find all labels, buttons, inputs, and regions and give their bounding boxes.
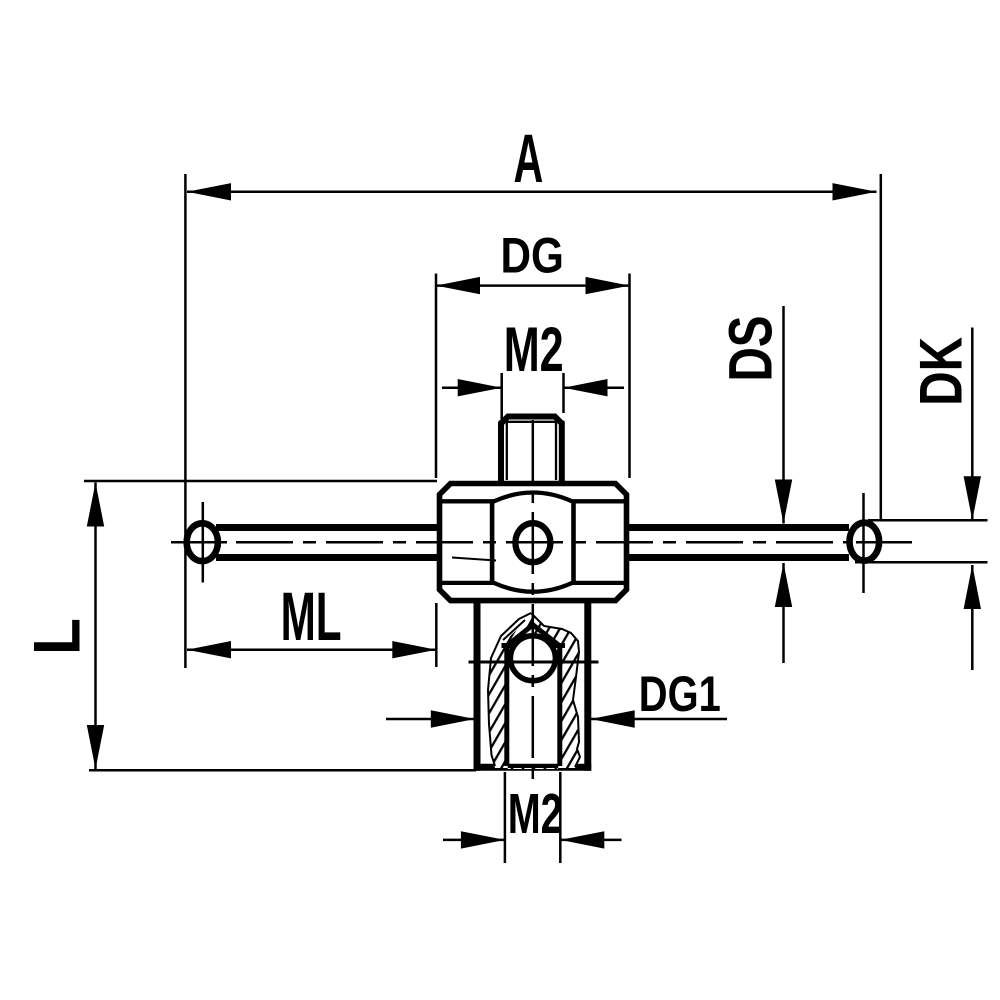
hex flat division line left [490, 502, 495, 582]
dimension ML extension line right [435, 603, 438, 667]
dimension DG1 tail left [386, 718, 475, 721]
dimension DK line lower [971, 565, 974, 670]
hex center hole [515, 523, 550, 562]
dimension M2 top arrowhead right [564, 379, 608, 396]
dimension DS line upper [782, 306, 785, 524]
dimension L line [94, 483, 97, 770]
dimension ML arrowhead right [392, 641, 436, 658]
hex body outline [440, 484, 627, 601]
main vertical centerline [532, 420, 535, 781]
main horizontal centerline [171, 541, 912, 544]
dimension ML arrowhead left [187, 641, 231, 658]
dimension M2 bottom extension lines [504, 772, 507, 863]
dimension ML line [187, 648, 436, 651]
hex chamfer edge lines top [440, 493, 627, 502]
svg-text:M2: M2 [504, 315, 564, 385]
dimension M2 top arrowhead left [458, 379, 502, 396]
bore wall right [557, 645, 562, 767]
dimension DG extension line right [628, 274, 631, 479]
bore wall left [504, 645, 509, 767]
dimension L arrowhead down [87, 725, 104, 769]
svg-text:DS: DS [716, 316, 784, 382]
dimension DK arrowhead down [964, 476, 981, 520]
cross hole circle [510, 636, 555, 681]
dimension L extension line bottom [89, 769, 476, 772]
svg-text:DK: DK [908, 337, 975, 406]
dimension L extension line top [84, 480, 437, 483]
stylus rod right segment [626, 528, 849, 558]
dimension A line [187, 191, 877, 194]
dimension DG1 tail right [591, 718, 727, 721]
ball tip left [187, 523, 218, 561]
lower shank outline [474, 601, 592, 771]
dimension M2 bottom tail right [560, 839, 621, 842]
dimension DS arrowhead up [775, 563, 792, 607]
dimension DK arrowhead up [964, 565, 981, 609]
hex flat division line right [571, 502, 576, 582]
dimension M2 bottom tail left [443, 839, 505, 842]
section boundary freehand outline left [488, 613, 531, 766]
ball right crosshair [862, 493, 865, 593]
svg-text:DG1: DG1 [639, 666, 721, 722]
section boundary freehand outline right [531, 613, 580, 767]
dimension DG1 arrowhead right [591, 710, 635, 727]
dimension A extension line left [184, 174, 187, 668]
svg-text:A: A [514, 120, 544, 197]
svg-text:L: L [20, 618, 94, 655]
dimension M2 top tail left [442, 386, 502, 389]
dimension DG arrowhead left [436, 277, 480, 294]
dimension A arrowhead left [187, 183, 231, 200]
dimension A extension line right [880, 174, 883, 520]
dimension DS arrowhead down [775, 480, 792, 524]
ball tip right [850, 523, 880, 561]
dimension L arrowhead up [87, 483, 104, 527]
dimension DK extension line bottom [855, 561, 988, 564]
section hatching [488, 613, 580, 769]
dimension DK line upper [971, 328, 974, 521]
dimension DG extension line left [435, 274, 438, 479]
ball left crosshair [202, 502, 205, 583]
stud chamfer line [499, 421, 565, 423]
svg-text:ML: ML [281, 578, 342, 655]
dimension DG1 arrowhead left [431, 710, 475, 727]
stylus rod left segment [216, 528, 440, 558]
cross hole horizontal centerline [469, 661, 599, 664]
svg-text:DG: DG [501, 227, 564, 283]
section boundary inner line upper-left [503, 620, 525, 640]
dimension DG arrowhead right [586, 277, 630, 294]
threaded stud M2 top [501, 417, 562, 484]
dimension A arrowhead right [833, 183, 877, 200]
hex stray tool mark [452, 558, 496, 561]
svg-text:M2: M2 [508, 782, 563, 846]
dimension DG line [436, 284, 630, 287]
dimension M2 top extension lines [500, 373, 503, 421]
dimension M2 top tail right [564, 386, 625, 389]
dimension DS line lower [782, 563, 785, 663]
stud thread root lines [506, 423, 508, 480]
hex chamfer edge lines bottom [440, 583, 627, 592]
dimension M2 bottom arrowhead left [461, 831, 505, 848]
dimension M2 bottom arrowhead right [560, 831, 604, 848]
drill point roof [502, 625, 566, 646]
dimension DK extension line top [868, 519, 988, 522]
